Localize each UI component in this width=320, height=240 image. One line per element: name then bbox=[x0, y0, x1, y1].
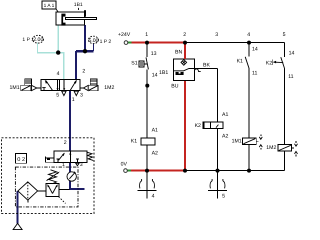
svg-text:14: 14 bbox=[252, 46, 258, 52]
svg-text:3: 3 bbox=[215, 32, 218, 38]
svg-text:2.00: 2.00 bbox=[33, 37, 43, 43]
svg-text:1: 1 bbox=[62, 162, 65, 168]
svg-text:K2: K2 bbox=[195, 123, 201, 129]
svg-text:0V: 0V bbox=[121, 161, 128, 167]
svg-text:5: 5 bbox=[56, 93, 59, 99]
svg-text:1: 1 bbox=[72, 97, 75, 103]
svg-text:2: 2 bbox=[82, 69, 85, 75]
svg-text:0 2: 0 2 bbox=[17, 157, 25, 163]
svg-text:1 A 1: 1 A 1 bbox=[44, 3, 55, 9]
svg-text:A1: A1 bbox=[152, 127, 158, 133]
svg-text:1B1: 1B1 bbox=[159, 70, 168, 76]
svg-text:11: 11 bbox=[288, 74, 293, 80]
svg-text:BN: BN bbox=[175, 49, 182, 55]
svg-text:K2: K2 bbox=[266, 60, 272, 66]
svg-text:1M2: 1M2 bbox=[266, 145, 276, 151]
svg-text:2: 2 bbox=[64, 140, 67, 146]
svg-text:11: 11 bbox=[252, 70, 257, 76]
svg-text:+24V: +24V bbox=[118, 32, 131, 38]
svg-text:A1: A1 bbox=[222, 112, 228, 118]
svg-text:5: 5 bbox=[222, 193, 225, 199]
svg-text:BU: BU bbox=[171, 83, 178, 89]
svg-text:2: 2 bbox=[183, 32, 186, 38]
svg-text:BK: BK bbox=[203, 62, 210, 68]
svg-text:1M1: 1M1 bbox=[10, 85, 20, 91]
svg-text:5.00: 5.00 bbox=[88, 38, 98, 44]
svg-text:4: 4 bbox=[152, 193, 155, 199]
svg-text:1M1: 1M1 bbox=[232, 138, 242, 144]
svg-text:1 P 2: 1 P 2 bbox=[100, 39, 112, 45]
svg-text:4: 4 bbox=[57, 71, 60, 77]
svg-text:13: 13 bbox=[151, 51, 157, 57]
svg-text:1: 1 bbox=[145, 32, 148, 38]
svg-text:3: 3 bbox=[80, 162, 83, 168]
svg-text:4: 4 bbox=[247, 32, 250, 38]
svg-text:5: 5 bbox=[283, 32, 286, 38]
svg-text:14: 14 bbox=[289, 50, 295, 56]
svg-text:A2: A2 bbox=[222, 133, 228, 139]
svg-text:K1: K1 bbox=[131, 139, 137, 145]
svg-text:1M2: 1M2 bbox=[104, 85, 114, 91]
svg-text:14: 14 bbox=[152, 72, 158, 78]
svg-text:A2: A2 bbox=[152, 150, 158, 156]
svg-text:K1: K1 bbox=[237, 59, 243, 65]
svg-text:3: 3 bbox=[80, 93, 83, 99]
svg-text:1B1: 1B1 bbox=[74, 2, 83, 8]
svg-text:S1: S1 bbox=[131, 61, 137, 67]
